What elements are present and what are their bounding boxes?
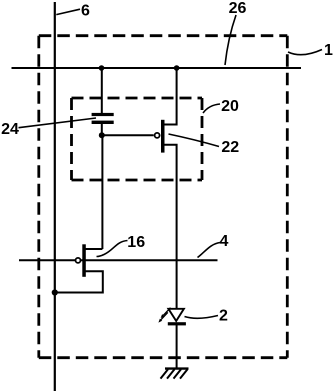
transistor Q 22 gate bubble [155,133,160,138]
wire from line 26 down to capacitor [101,68,103,113]
label 26 leader [225,15,236,65]
svg-text:16: 16 [127,234,145,251]
LED D 2 cathode bar [168,322,186,325]
svg-text:24: 24 [1,121,19,138]
junction node: capacitor / gate of 22 [99,132,105,138]
label 20 leader [203,104,220,113]
ground symbol hatching [161,369,188,378]
svg-text:26: 26 [229,0,247,17]
capacitor C 24 top plate [92,113,114,116]
transistor Q 22 channel bar [161,120,165,153]
LED D 2 emission arrow 2 [158,312,167,322]
label 2 leader [185,316,219,319]
junction node on line 26 above transistor 22 [174,65,180,71]
inner dashed box 20 [72,98,203,180]
junction node on line 26 above capacitor [99,65,105,71]
svg-text:22: 22 [221,139,239,156]
wire: vertical data line 6 [54,2,56,391]
svg-text:4: 4 [220,233,229,250]
transistor Q 16 source lead (bottom) [55,271,103,292]
transistor Q 16 gate bubble [76,258,81,263]
pixel boundary dashed box 1 [39,36,287,358]
wire: horizontal select line 4 [19,259,218,261]
label 22 leader [169,134,220,147]
svg-text:2: 2 [219,308,228,325]
wire: LED cathode to ground [176,325,178,369]
wire: gate lead to transistor 22 [102,134,154,136]
label 4 leader [198,243,221,258]
transistor Q 22 source lead (bottom) [163,145,177,309]
transistor Q 22 drain lead (top) [163,68,177,125]
wire: horizontal power supply line 26 [12,67,302,69]
svg-text:6: 6 [81,3,90,20]
transistor Q 16 drain lead (top) [84,248,102,250]
wire: gate node down to transistor 16 [101,135,103,249]
wire from capacitor bottom to gate node [101,124,103,135]
LED D 2 triangle [168,309,184,321]
label 1 leader [288,50,322,55]
capacitor C 24 bottom plate [92,121,114,124]
svg-text:1: 1 [324,42,333,59]
svg-text:20: 20 [221,98,239,115]
label 6 leader [56,9,80,14]
label 24 leader [19,118,97,128]
label 16 leader [97,241,128,257]
junction node on line 6 [52,289,58,295]
ground symbol bar [165,367,189,369]
LED D 2 emission arrow 1 [161,308,171,318]
transistor Q 16 channel bar [82,244,86,276]
